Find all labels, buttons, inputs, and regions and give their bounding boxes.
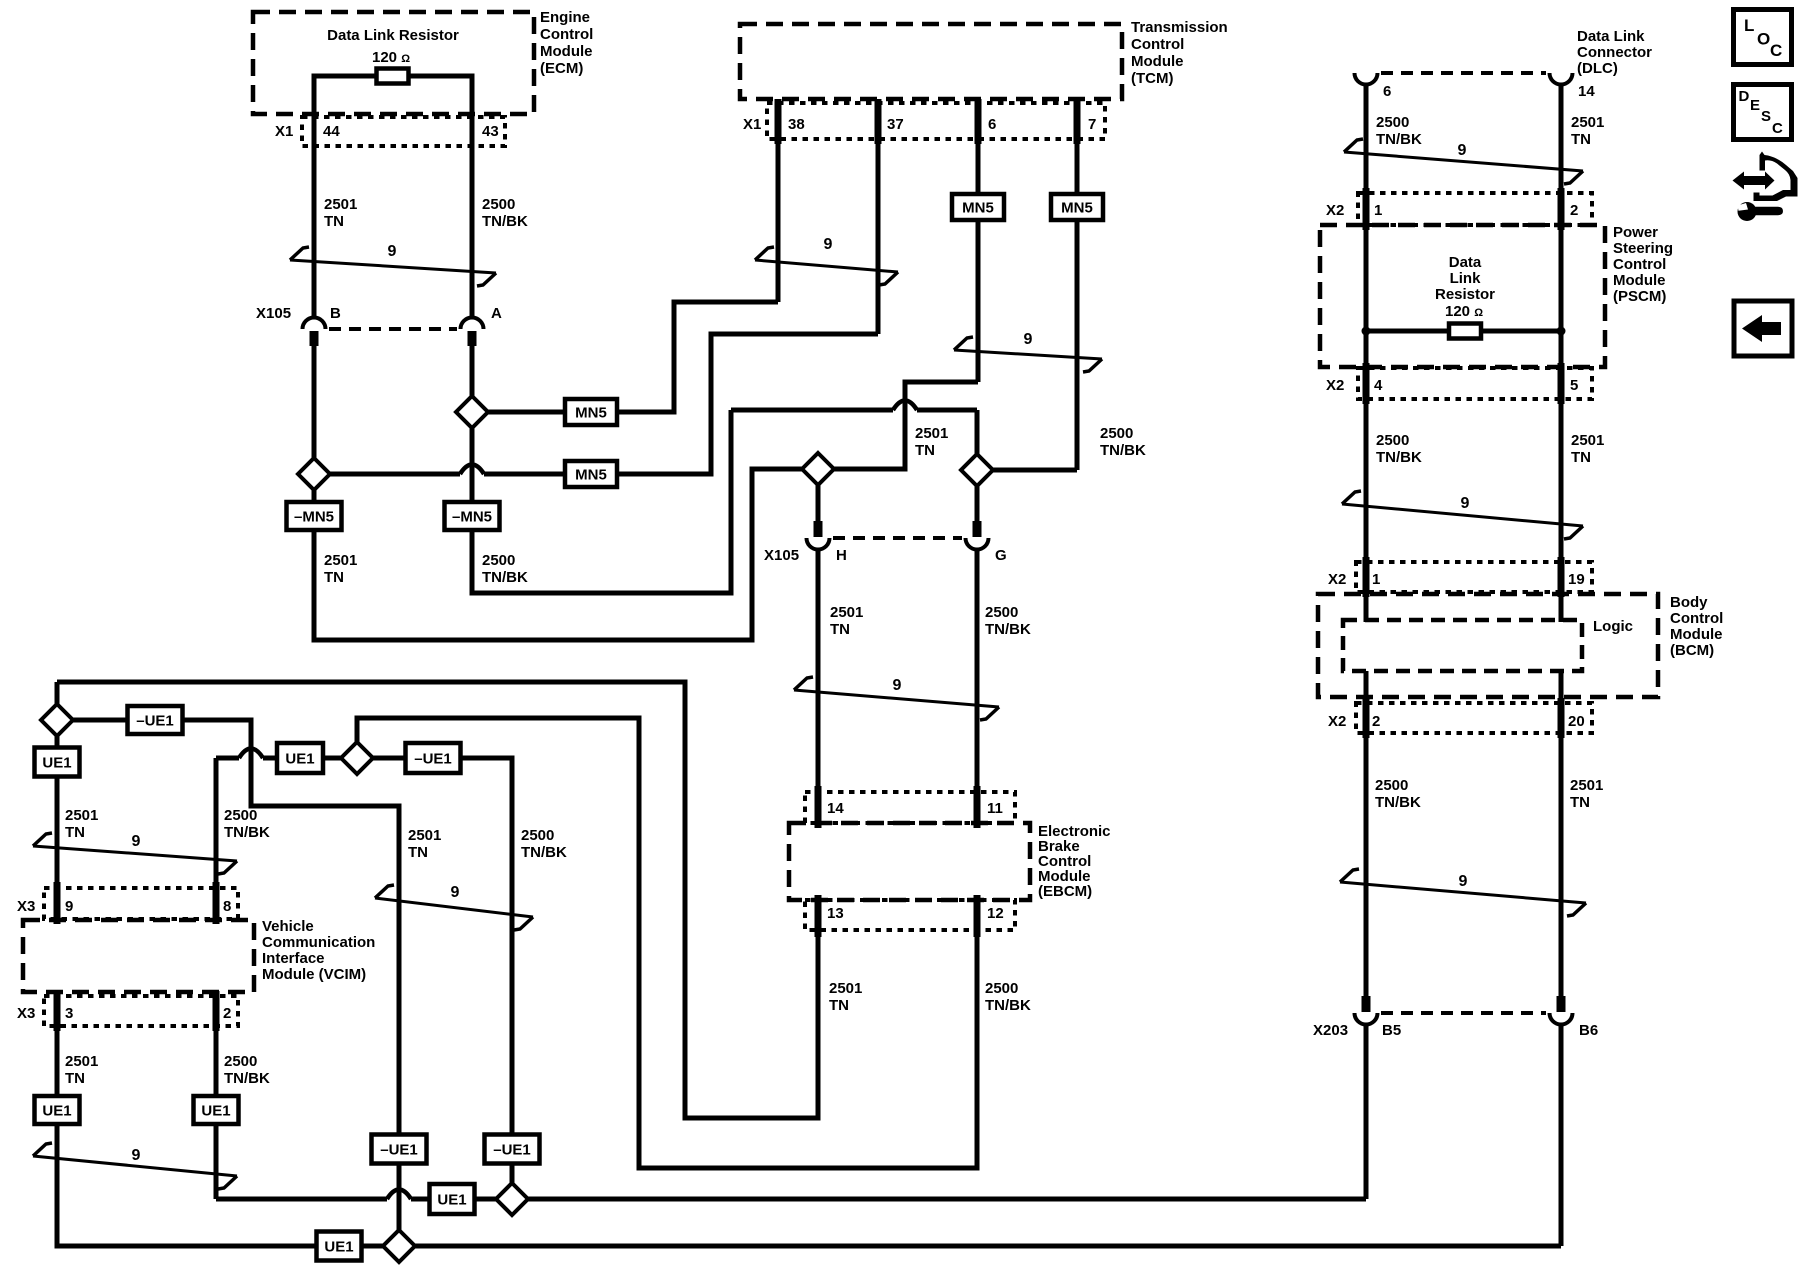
- svg-text:2: 2: [1570, 202, 1578, 219]
- svg-text:UE1: UE1: [285, 751, 314, 768]
- svg-text:2500: 2500: [521, 827, 554, 844]
- svg-text:C: C: [1770, 41, 1782, 60]
- svg-text:2501: 2501: [408, 827, 441, 844]
- svg-text:X1: X1: [275, 123, 293, 140]
- svg-text:X105: X105: [256, 305, 291, 322]
- harness crossing 9 (VCIM lower pair): [33, 1156, 237, 1176]
- svg-text:Body: Body: [1670, 594, 1708, 611]
- dashed connector line DLC: [1381, 71, 1546, 75]
- off-page box -UE1 (D2 column): [485, 1135, 540, 1164]
- svg-text:G: G: [995, 547, 1007, 564]
- svg-text:9: 9: [132, 833, 141, 850]
- off-page box UE1 (X3 pin 3): [35, 1096, 80, 1124]
- wire: TCM pin 6 jog left and down to diamond H: [834, 382, 978, 469]
- svg-text:MN5: MN5: [575, 405, 607, 422]
- wire: 2500 TN/BK down, right, up, right to diamond G: [472, 410, 731, 593]
- svg-text:1: 1: [1374, 202, 1382, 219]
- wire: X3 pin 8 wire up, right (hop), to diamond D1: [214, 758, 219, 920]
- svg-text:–UE1: –UE1: [414, 751, 452, 768]
- svg-text:43: 43: [482, 123, 499, 140]
- svg-text:TN/BK: TN/BK: [521, 844, 567, 861]
- svg-text:2501: 2501: [829, 980, 862, 997]
- svg-text:44: 44: [323, 123, 340, 140]
- svg-text:9: 9: [1459, 873, 1468, 890]
- svg-text:TN/BK: TN/BK: [482, 213, 528, 230]
- svg-text:6: 6: [1383, 83, 1391, 100]
- svg-text:Interface: Interface: [262, 950, 325, 967]
- svg-text:A: A: [491, 305, 502, 322]
- svg-text:Vehicle: Vehicle: [262, 918, 314, 935]
- wire: S1 right to MN5, hop over 2500 wire, up to TCM pin 37: [330, 472, 460, 477]
- harness crossing 9 (PSCM-BCM pair): [1342, 504, 1583, 526]
- wire: X105 B down to splice S1: [312, 346, 317, 458]
- splice diamond D2 (2500 TN/BK): [496, 1183, 528, 1215]
- splice diamond D3 (2501 TN): [383, 1230, 415, 1262]
- module box: Power Steering Control Module (PSCM): [1320, 225, 1605, 367]
- svg-text:TN/BK: TN/BK: [224, 824, 270, 841]
- svg-text:7: 7: [1088, 116, 1096, 133]
- svg-text:2500: 2500: [1376, 114, 1409, 131]
- svg-text:–UE1: –UE1: [493, 1142, 531, 1159]
- svg-text:19: 19: [1568, 571, 1585, 588]
- module box: Engine Control Module (ECM): [253, 12, 534, 114]
- svg-text:TN: TN: [324, 213, 344, 230]
- svg-text:Connector: Connector: [1577, 44, 1652, 61]
- wire: BCM pin 20 down to X203 B6: [1559, 671, 1564, 996]
- dashed connector line X105 H-G: [833, 536, 962, 540]
- svg-text:2500: 2500: [1375, 777, 1408, 794]
- connector cup X203 B6: [1550, 1013, 1573, 1025]
- wire: V1 right to -UE1 then down: [72, 718, 128, 723]
- svg-text:UE1: UE1: [42, 1103, 71, 1120]
- connector strip X1 (TCM) pins 38/37/6/7: [767, 103, 1105, 139]
- svg-text:UE1: UE1: [437, 1192, 466, 1209]
- svg-text:6: 6: [988, 116, 996, 133]
- svg-text:TN: TN: [1571, 449, 1591, 466]
- svg-text:H: H: [836, 547, 847, 564]
- svg-text:2500: 2500: [224, 807, 257, 824]
- svg-text:9: 9: [1461, 495, 1470, 512]
- wire: X3 pin 3 down through UE1 to bottom rail: [55, 992, 60, 1096]
- connector cup DLC 14: [1550, 73, 1573, 85]
- svg-text:(PSCM): (PSCM): [1613, 288, 1666, 305]
- svg-text:UE1: UE1: [201, 1103, 230, 1120]
- off-page box UE1 (D1 left): [277, 743, 323, 773]
- svg-text:TN: TN: [830, 621, 850, 638]
- svg-text:4: 4: [1374, 377, 1383, 394]
- pin bars in strips (thicker wire segments): [815, 786, 822, 828]
- svg-text:Data Link: Data Link: [1577, 28, 1645, 45]
- connector cup X203 B5: [1355, 1013, 1378, 1025]
- wire: PSCM internal resistor row: [1366, 329, 1449, 334]
- off-page box -UE1 (top left): [128, 706, 183, 734]
- svg-text:8: 8: [223, 898, 231, 915]
- wire: TCM pin 6 down through MN5: [976, 99, 981, 194]
- svg-text:2501: 2501: [915, 425, 948, 442]
- svg-text:Module: Module: [1670, 626, 1723, 643]
- wire: BCM pin 2 down to X203 B5: [1364, 671, 1369, 996]
- splice diamond H (2501 TN): [802, 453, 834, 485]
- junction dot left: [1362, 327, 1371, 336]
- wire: S2 right to MN5 and up to TCM pin 38: [488, 410, 565, 415]
- svg-text:37: 37: [887, 116, 904, 133]
- connector dome X105 A: [461, 318, 484, 330]
- svg-text:C: C: [1772, 120, 1783, 137]
- harness crossing 9 (EBCM pair): [794, 690, 999, 707]
- svg-text:X203: X203: [1313, 1022, 1348, 1039]
- wire: lower rail y1199 (2500 TN/BK) with hop, UE1, D2: [216, 1197, 387, 1202]
- svg-text:20: 20: [1568, 713, 1585, 730]
- svg-text:(ECM): (ECM): [540, 60, 583, 77]
- svg-text:9: 9: [893, 677, 902, 694]
- svg-text:2500: 2500: [985, 980, 1018, 997]
- wire: D1 right through -UE1, down: [373, 756, 406, 761]
- svg-text:Control: Control: [540, 26, 593, 43]
- svg-text:Control: Control: [1613, 256, 1666, 273]
- svg-text:TN: TN: [324, 569, 344, 586]
- icon box back-arrow: [1734, 301, 1792, 356]
- off-page box UE1 (rail 1199): [430, 1184, 475, 1214]
- connector strip X2 (BCM) pins 1/19: [1356, 562, 1592, 592]
- inline connector X203 pin B5: [1362, 996, 1371, 1012]
- connector dome X105 B: [303, 318, 326, 330]
- svg-text:2: 2: [223, 1005, 231, 1022]
- svg-text:TN: TN: [1571, 131, 1591, 148]
- wire: DLC 14 down to BCM logic, 2501 TN: [1559, 84, 1564, 622]
- off-page box -UE1 (D3 column): [372, 1135, 427, 1164]
- wire: 2501 TN down, right, up to diamond H: [314, 469, 802, 640]
- svg-text:13: 13: [827, 905, 844, 922]
- svg-text:9: 9: [1458, 142, 1467, 159]
- icon box DESC: [1734, 85, 1792, 140]
- svg-text:(BCM): (BCM): [1670, 642, 1714, 659]
- svg-text:X105: X105: [764, 547, 799, 564]
- inline connector X203 pin B6: [1557, 996, 1566, 1012]
- svg-text:9: 9: [451, 884, 460, 901]
- svg-text:2501: 2501: [324, 196, 357, 213]
- off-page box MN5 (TCM pin 6): [952, 194, 1004, 220]
- svg-text:TN: TN: [1570, 794, 1590, 811]
- svg-text:Module (VCIM): Module (VCIM): [262, 966, 366, 983]
- svg-text:Transmission: Transmission: [1131, 19, 1228, 36]
- wire: X203 B6 down, left to bottom rail: [1559, 1024, 1564, 1246]
- svg-text:TN/BK: TN/BK: [985, 621, 1031, 638]
- off-page box UE1 (X3 pin 9): [35, 748, 80, 777]
- svg-text:–MN5: –MN5: [452, 509, 492, 526]
- svg-text:TN/BK: TN/BK: [1100, 442, 1146, 459]
- svg-text:2501: 2501: [1571, 114, 1604, 131]
- resistor: Data Link Resistor 120 ohm (ECM): [377, 69, 409, 84]
- svg-text:(DLC): (DLC): [1577, 60, 1618, 77]
- module box: Vehicle Communication Interface Module (VCIM): [23, 920, 254, 992]
- svg-text:(EBCM): (EBCM): [1038, 883, 1092, 900]
- wire: X3 pin 2 down through UE1 to lower rail: [214, 992, 219, 1096]
- wire: diamond G right to TCM pin 7 wire: [992, 468, 1077, 473]
- junction dot right: [1557, 327, 1566, 336]
- svg-text:Communication: Communication: [262, 934, 375, 951]
- wire: TCM pin 7 down through MN5 to diamond G row: [1075, 99, 1080, 194]
- svg-text:Data Link Resistor: Data Link Resistor: [327, 27, 459, 44]
- connector cup X105 H: [807, 538, 830, 550]
- svg-text:TN: TN: [65, 824, 85, 841]
- svg-text:2500: 2500: [224, 1053, 257, 1070]
- svg-text:1: 1: [1372, 571, 1380, 588]
- svg-text:D: D: [1739, 88, 1750, 105]
- wire: ECM pin 43 to resistor, 2500 TN/BK: [408, 76, 472, 317]
- svg-text:12: 12: [987, 905, 1004, 922]
- icon box LOC: [1734, 10, 1792, 65]
- svg-text:2501: 2501: [324, 552, 357, 569]
- svg-text:14: 14: [1578, 83, 1595, 100]
- svg-text:B5: B5: [1382, 1022, 1401, 1039]
- svg-text:UE1: UE1: [324, 1239, 353, 1256]
- svg-text:B6: B6: [1579, 1022, 1598, 1039]
- connector strip X2 (PSCM) pins 4/5: [1358, 368, 1592, 399]
- harness crossing 9 (X203 pair): [1340, 882, 1586, 903]
- wire: X105 G down to EBCM pin 11: [975, 549, 980, 823]
- harness crossing 9 (branch pair): [375, 898, 533, 917]
- connector strip X3 (VCIM) pins 3/2: [44, 996, 238, 1026]
- svg-text:Steering: Steering: [1613, 240, 1673, 257]
- splice diamond D1 (2500 TN/BK): [341, 742, 373, 774]
- svg-text:9: 9: [65, 898, 73, 915]
- svg-text:2500: 2500: [482, 552, 515, 569]
- inline connector X105 pin G: [975, 486, 980, 521]
- harness crossing 9 (ECM pair): [290, 260, 496, 273]
- svg-text:MN5: MN5: [962, 200, 994, 217]
- svg-text:2500: 2500: [482, 196, 515, 213]
- svg-text:X2: X2: [1328, 713, 1346, 730]
- module box: Body Control Module (BCM): [1318, 594, 1658, 697]
- wire: V1 down through UE1 to X3 pin 9: [55, 735, 60, 748]
- svg-text:2: 2: [1372, 713, 1380, 730]
- svg-text:11: 11: [987, 800, 1003, 817]
- svg-text:Resistor: Resistor: [1435, 286, 1495, 303]
- svg-text:UE1: UE1: [42, 755, 71, 772]
- svg-text:9: 9: [388, 243, 397, 260]
- svg-text:L: L: [1744, 16, 1754, 35]
- harness crossing 9 (TCM 6/7 pair): [954, 350, 1102, 359]
- dashed connector line X105 B-A: [329, 327, 457, 331]
- connector cup X105 G: [966, 538, 989, 550]
- svg-text:–MN5: –MN5: [294, 509, 334, 526]
- wire: EBCM pin 12 down, left, up to diamond D1: [357, 718, 977, 1168]
- svg-text:Module: Module: [540, 43, 593, 60]
- svg-text:X2: X2: [1326, 202, 1344, 219]
- svg-text:Module: Module: [1613, 272, 1666, 289]
- svg-text:–UE1: –UE1: [136, 713, 174, 730]
- wire: X105 A down to splice S2: [470, 346, 475, 396]
- svg-text:S: S: [1761, 108, 1771, 125]
- svg-text:Data: Data: [1449, 254, 1482, 271]
- svg-text:MN5: MN5: [575, 467, 607, 484]
- svg-text:2501: 2501: [65, 807, 98, 824]
- svg-text:TN/BK: TN/BK: [482, 569, 528, 586]
- svg-text:TN: TN: [915, 442, 935, 459]
- svg-text:2500: 2500: [985, 604, 1018, 621]
- svg-text:Engine: Engine: [540, 9, 590, 26]
- resistor: Data Link Resistor 120 ohm (PSCM): [1449, 324, 1481, 339]
- connector strip X2 (BCM) pins 2/20: [1356, 703, 1592, 733]
- connector strip X3 (VCIM) pins 9/8: [44, 888, 238, 919]
- svg-text:2501: 2501: [1571, 432, 1604, 449]
- splice diamond G (2500 TN/BK): [961, 454, 993, 486]
- svg-text:X3: X3: [17, 898, 35, 915]
- svg-text:O: O: [1757, 30, 1770, 49]
- off-page box -MN5 (2501 TN): [287, 502, 342, 530]
- svg-text:TN/BK: TN/BK: [1376, 449, 1422, 466]
- svg-text:Control: Control: [1131, 36, 1184, 53]
- svg-text:–UE1: –UE1: [380, 1142, 418, 1159]
- svg-text:Link: Link: [1450, 270, 1481, 287]
- wire: EBCM pin 13 down, left, up to VCIM top rail: [57, 682, 818, 1118]
- harness crossing 9 (DLC pair): [1344, 152, 1583, 171]
- off-page box -MN5 (2500 TN/BK): [445, 502, 500, 530]
- svg-text:TN: TN: [829, 997, 849, 1014]
- module box: Electronic Brake Control Module (EBCM): [789, 823, 1030, 900]
- svg-text:X3: X3: [17, 1005, 35, 1022]
- svg-text:38: 38: [788, 116, 805, 133]
- wire: S1 down through -MN5: [312, 490, 317, 502]
- icon: double arrow with loop arrow and wrench: [1733, 172, 1775, 190]
- wire: X203 B5 down, left to lower rail: [1364, 1024, 1369, 1199]
- harness crossing 9 (VCIM upper pair): [33, 846, 237, 861]
- off-page box UE1 (X3 pin 2): [194, 1096, 239, 1124]
- svg-text:TN/BK: TN/BK: [1376, 131, 1422, 148]
- connector strip EBCM pins 13/12: [805, 900, 1015, 930]
- off-page box -UE1 (D1 right): [406, 743, 461, 773]
- svg-text:Module: Module: [1131, 53, 1184, 70]
- connector strip X1 (ECM) pins 44/43: [302, 117, 505, 146]
- svg-text:TN/BK: TN/BK: [985, 997, 1031, 1014]
- connector strip EBCM pins 14/11: [805, 792, 1015, 823]
- svg-text:9: 9: [824, 236, 833, 253]
- svg-text:5: 5: [1570, 377, 1578, 394]
- svg-text:2500: 2500: [1376, 432, 1409, 449]
- svg-text:TN/BK: TN/BK: [1375, 794, 1421, 811]
- splice diamond S2 (2500 TN/BK): [456, 396, 488, 428]
- wire: S2 down through -MN5: [470, 428, 475, 502]
- svg-text:2500: 2500: [1100, 425, 1133, 442]
- connector strip X2 (PSCM) pins 1/2: [1358, 193, 1592, 225]
- dashed connector line X203: [1381, 1011, 1546, 1015]
- svg-text:14: 14: [827, 800, 844, 817]
- splice diamond V1 (2501 TN): [41, 704, 73, 736]
- svg-text:9: 9: [132, 1147, 141, 1164]
- svg-text:X2: X2: [1328, 571, 1346, 588]
- svg-text:TN/BK: TN/BK: [224, 1070, 270, 1087]
- module box: Transmission Control Module (TCM): [740, 24, 1122, 99]
- wire: DLC 6 down to BCM logic, 2500 TN/BK: [1364, 84, 1369, 622]
- off-page box UE1 (rail 1246): [317, 1232, 362, 1261]
- wire: top rail down to diamond V1: [55, 682, 60, 705]
- svg-text:3: 3: [65, 1005, 73, 1022]
- svg-text:TN: TN: [408, 844, 428, 861]
- harness crossing 9 (TCM 38/37 pair): [755, 260, 898, 272]
- svg-text:TN: TN: [65, 1070, 85, 1087]
- off-page box MN5 (S2 row): [565, 399, 617, 425]
- svg-text:Logic: Logic: [1593, 618, 1633, 635]
- svg-text:X2: X2: [1326, 377, 1344, 394]
- off-page box MN5 (TCM pin 7): [1051, 194, 1103, 220]
- logic box (BCM): [1343, 620, 1582, 671]
- svg-text:MN5: MN5: [1061, 200, 1093, 217]
- svg-text:B: B: [330, 305, 341, 322]
- svg-text:Power: Power: [1613, 224, 1658, 241]
- svg-text:X1: X1: [743, 116, 761, 133]
- svg-text:Control: Control: [1670, 610, 1723, 627]
- connector cup DLC 6: [1355, 73, 1378, 85]
- inline connector X105 pin H: [816, 485, 821, 521]
- wire: X105 H down to EBCM pin 14: [816, 549, 821, 823]
- wire: ECM pin 44 to resistor, 2501 TN: [314, 76, 377, 317]
- svg-text:2501: 2501: [1570, 777, 1603, 794]
- svg-text:2501: 2501: [65, 1053, 98, 1070]
- svg-text:2501: 2501: [830, 604, 863, 621]
- off-page box MN5 (S1 row): [565, 461, 617, 487]
- splice diamond S1 (2501 TN): [298, 458, 330, 490]
- svg-text:9: 9: [1024, 331, 1033, 348]
- svg-text:E: E: [1750, 97, 1760, 114]
- svg-text:(TCM): (TCM): [1131, 70, 1173, 87]
